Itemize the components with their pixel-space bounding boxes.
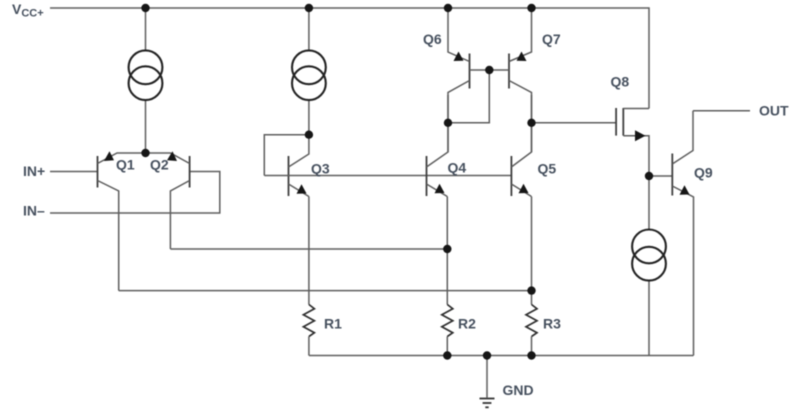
transistor Q2 base bar	[189, 156, 191, 188]
svg-text:IN–: IN–	[23, 203, 45, 219]
arrow Q6 emitter	[454, 52, 464, 62]
svg-text:Q6: Q6	[423, 31, 442, 47]
resistor R2	[442, 305, 453, 337]
wire bottom ground rail	[309, 355, 694, 357]
node R3 bottom	[527, 351, 535, 359]
transistor Q3 collector	[289, 135, 309, 167]
transistor Q9 base bar	[671, 154, 673, 196]
node Q6 Q7 bases	[485, 66, 493, 74]
wire current source 1 top stem	[145, 8, 147, 50]
svg-text:VCC+: VCC+	[12, 1, 44, 20]
svg-text:Q5: Q5	[538, 161, 557, 177]
node top rail / Q7	[527, 4, 535, 12]
wire Q8 source node to current source 3	[648, 176, 650, 229]
wire IN- to Q2 base loop	[50, 172, 220, 214]
ground	[480, 399, 495, 408]
svg-text:Q4: Q4	[448, 159, 467, 175]
node Q7 collector / Q8 gate	[527, 119, 535, 127]
transistor Q1 collector	[98, 181, 119, 291]
transistor Q7 collector	[509, 81, 532, 153]
current source I3	[632, 230, 666, 281]
arrow Q4 emitter	[435, 184, 445, 194]
node R2 bottom	[443, 351, 451, 359]
transistor Q8 channel bar	[622, 108, 624, 136]
wire IN+ to Q1 base	[50, 171, 98, 173]
transistor Q9 emitter	[672, 186, 693, 356]
transistor Q8 source	[623, 136, 649, 176]
wire Q3 emitter to R1	[308, 197, 310, 305]
transistor Q8 drain	[623, 108, 649, 110]
svg-text:Q3: Q3	[311, 160, 330, 176]
svg-text:Q8: Q8	[611, 74, 630, 90]
transistor Q8 gate bar	[615, 108, 617, 136]
transistor Q5 emitter	[511, 184, 531, 197]
current source I1	[129, 50, 163, 100]
node top rail / I1	[141, 4, 149, 12]
wire Q6/Q7 base to Q6 collector	[448, 70, 489, 123]
node top rail / I2	[305, 4, 313, 12]
node top rail / Q6	[444, 4, 452, 12]
resistor R3	[526, 305, 537, 337]
arrow Q5 emitter	[519, 184, 529, 194]
arrow Q8 source	[635, 130, 646, 141]
transistor Q4 base bar	[426, 156, 428, 196]
transistor Q4 collector	[427, 95, 449, 167]
arrow Q7 emitter	[517, 52, 527, 62]
node Q1 collector / Q5 emitter	[527, 286, 535, 294]
node Q3 collector	[305, 131, 313, 139]
svg-text:OUT: OUT	[759, 103, 789, 119]
transistor Q3 emitter	[289, 184, 309, 197]
wire current source 3 bottom stem	[648, 281, 650, 356]
transistor Q7 emitter	[509, 8, 532, 62]
node Q2 collector / Q4 emitter	[443, 245, 451, 253]
svg-text:R1: R1	[324, 316, 342, 332]
arrow Q1 emitter	[104, 151, 114, 161]
svg-text:IN+: IN+	[23, 163, 45, 179]
transistor Q1 base bar	[97, 156, 99, 188]
wire R3 bottom	[531, 337, 533, 356]
arrow Q2 emitter	[167, 151, 177, 161]
transistor Q6 base bar	[469, 54, 471, 89]
wire current source 1 bottom stem	[145, 100, 147, 153]
node Q1 Q2 emitters	[141, 149, 149, 157]
arrow Q3 emitter	[297, 184, 307, 194]
svg-text:GND: GND	[503, 382, 534, 398]
wire Q7 collector to Q8 gate	[532, 122, 617, 124]
wire Q8 source to Q9 base	[649, 175, 672, 177]
transistor Q5 base bar	[510, 156, 512, 196]
node Q8 source / Q9 base	[645, 172, 653, 180]
svg-text:Q9: Q9	[694, 165, 713, 181]
transistor Q2 emitter	[146, 153, 190, 164]
transistor Q2 collector	[170, 181, 189, 250]
wire Q6 Q7 base link	[470, 69, 510, 71]
arrow Q9 emitter	[680, 185, 690, 195]
wire Q5 emitter to R3	[531, 197, 533, 305]
current source I2	[292, 50, 326, 100]
wire Q1 collector to Q5 emitter	[119, 290, 532, 292]
wire Q2 collector to Q4 emitter	[170, 248, 447, 250]
wire Q4 emitter to R2	[446, 197, 448, 305]
wire Q3 base-collector loop	[264, 135, 309, 176]
svg-text:Q2: Q2	[150, 157, 169, 173]
wire current source 2 bottom stem	[308, 100, 310, 134]
resistor R1	[303, 305, 314, 337]
transistor Q5 collector	[511, 95, 531, 167]
transistor Q9 collector	[672, 111, 693, 164]
transistor Q3 base bar	[288, 156, 290, 196]
wire VCC+ top rail	[50, 8, 649, 109]
transistor Q6 collector	[448, 81, 470, 153]
node Q6 collector mirror	[444, 119, 452, 127]
svg-text:R2: R2	[458, 316, 476, 332]
svg-text:Q7: Q7	[542, 31, 561, 47]
transistor Q4 emitter	[427, 184, 448, 197]
svg-text:Q1: Q1	[116, 157, 135, 173]
transistor Q7 base bar	[508, 54, 510, 89]
wire R1 bottom	[308, 337, 310, 356]
wire R2 bottom	[446, 337, 448, 356]
transistor Q1 emitter	[98, 153, 146, 164]
transistor Q6 emitter	[448, 8, 470, 62]
svg-text:R3: R3	[543, 316, 561, 332]
wire current source 2 top stem	[308, 8, 310, 50]
wire GND stem	[486, 356, 488, 398]
node GND tap	[483, 351, 491, 359]
wire Q9 collector to OUT	[693, 110, 750, 112]
wire common base Q3 Q4 Q5	[264, 175, 511, 177]
